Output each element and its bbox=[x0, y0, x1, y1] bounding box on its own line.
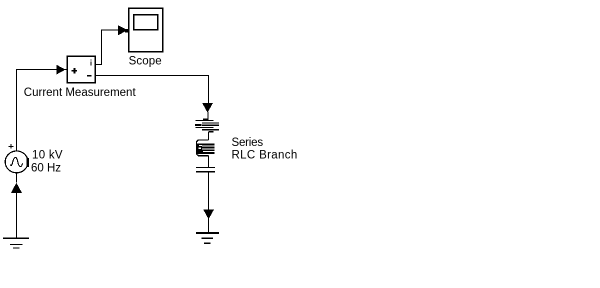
capacitor of Series RLC Branch bbox=[196, 166, 215, 168]
arrowhead into Current Measurement + port bbox=[56, 65, 65, 75]
sine wave inside source bbox=[10, 157, 22, 166]
arrowhead into Scope port bbox=[118, 25, 128, 35]
i label inside Current Measurement bbox=[90, 59, 91, 65]
resistor of Series RLC Branch bbox=[195, 119, 218, 132]
wire: arrow down to left ground bbox=[16, 193, 18, 239]
wire: source bottom stub bbox=[16, 173, 18, 182]
wire: source plus terminal up and across to Current Measurement input bbox=[17, 70, 58, 151]
arrowhead down into RLC branch top port bbox=[202, 103, 213, 113]
scope screen bbox=[134, 15, 158, 30]
wire: inductor to capacitor bbox=[208, 156, 210, 168]
wire: resistor to inductor bbox=[208, 132, 210, 140]
ground right bbox=[196, 232, 219, 234]
wire: arrow to right ground bbox=[208, 218, 210, 233]
ground left bbox=[3, 237, 29, 239]
port bar on right edge of source bbox=[26, 158, 28, 167]
arrowhead up into source bottom port bbox=[11, 183, 22, 193]
svg-text:60 Hz: 60 Hz bbox=[31, 163, 61, 175]
svg-text:Scope: Scope bbox=[129, 55, 162, 67]
inductor of Series RLC Branch bbox=[196, 140, 208, 144]
plus sign at AC source top port bbox=[9, 144, 14, 149]
minus label inside Current Measurement bbox=[87, 75, 91, 76]
wire: minus output across and down to Series RLC Branch bbox=[95, 76, 208, 104]
wire: capacitor down to ground arrow bbox=[208, 172, 210, 210]
svg-text:RLC Branch: RLC Branch bbox=[232, 150, 298, 162]
arrowhead down toward right ground bbox=[203, 210, 214, 220]
block Scope bbox=[129, 8, 163, 51]
svg-text:Series: Series bbox=[232, 137, 264, 149]
block U1 Current Measurement bbox=[67, 56, 95, 83]
plus label inside Current Measurement bbox=[72, 68, 77, 74]
svg-text:10 kV: 10 kV bbox=[32, 149, 63, 161]
AC voltage source V1 bbox=[5, 151, 28, 173]
svg-text:Current Measurement: Current Measurement bbox=[24, 87, 137, 99]
wire: i output up to Scope bbox=[95, 30, 118, 65]
